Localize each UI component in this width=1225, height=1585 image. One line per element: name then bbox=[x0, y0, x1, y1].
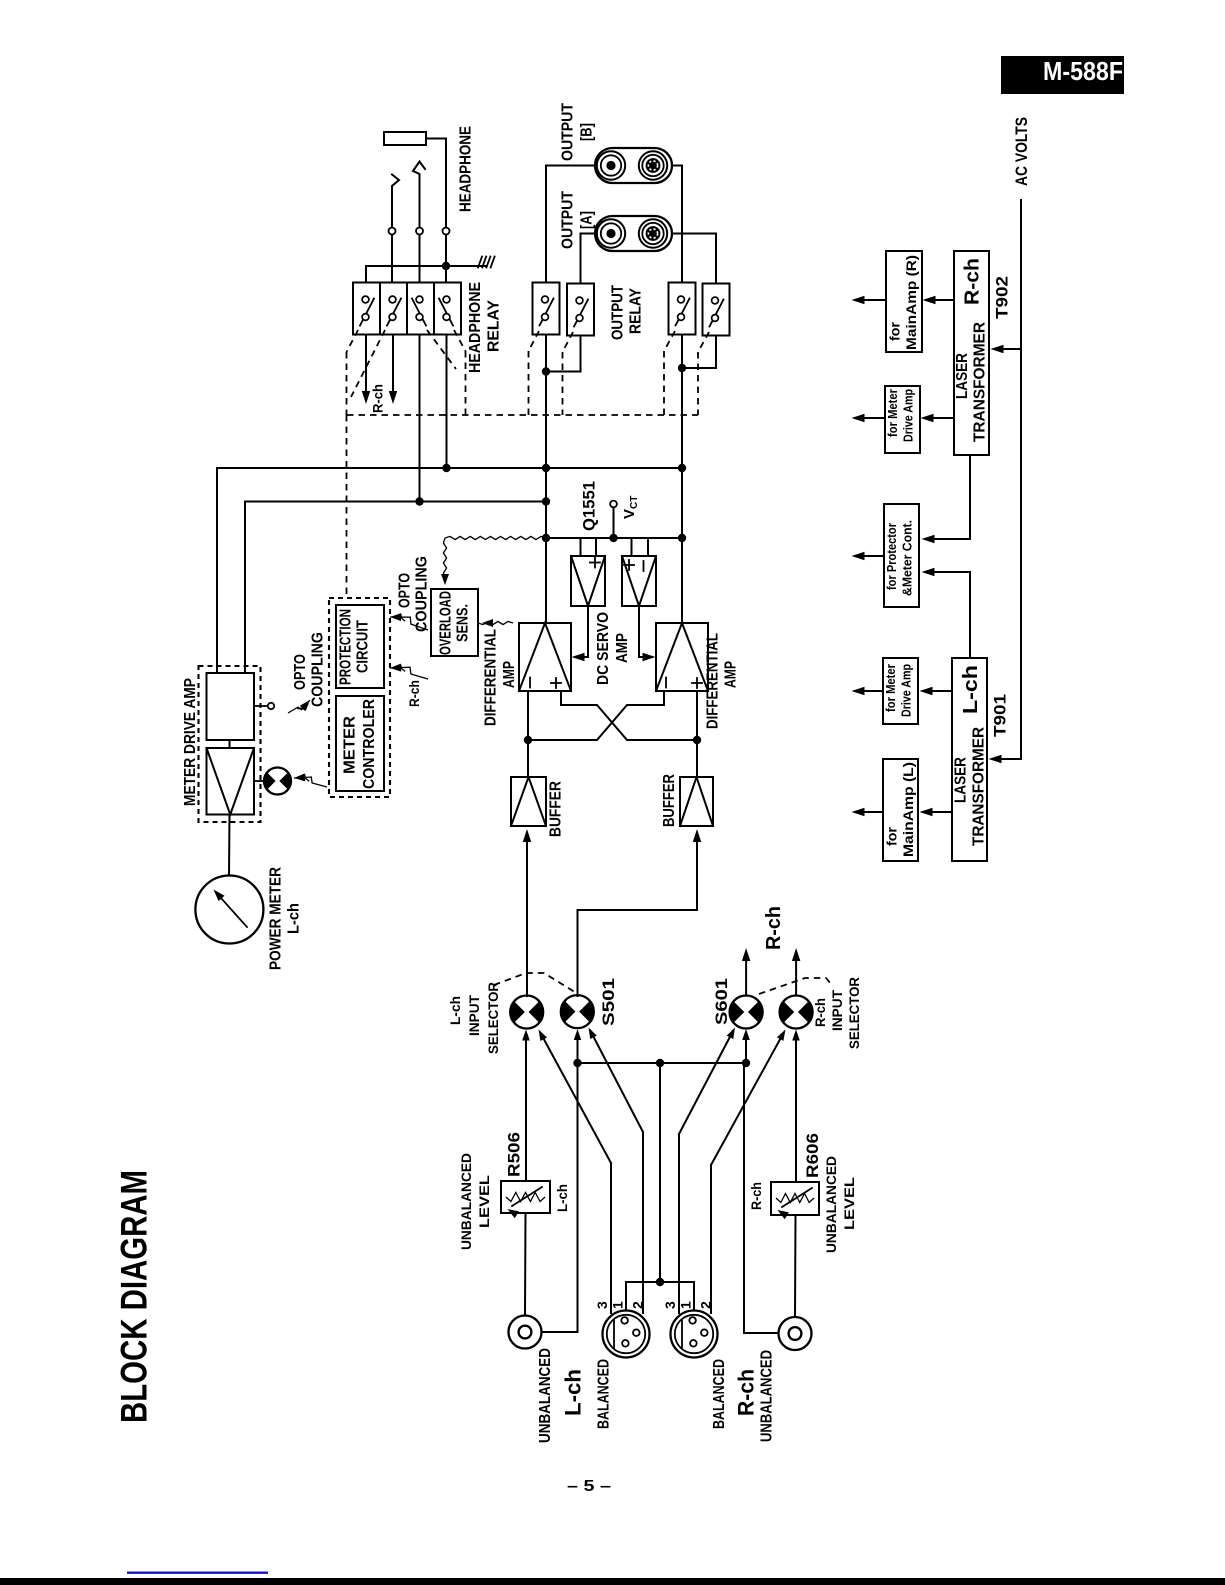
output relay dashed K5 bbox=[529, 331, 540, 351]
headphone relay K1 bbox=[353, 283, 380, 335]
svg-text:R-ch: R-ch bbox=[733, 1369, 758, 1416]
svg-text:BUFFER: BUFFER bbox=[547, 781, 564, 837]
wire T901 to protector bbox=[927, 572, 970, 658]
balanced input rail bbox=[578, 1062, 747, 1064]
R606 resistor zigzag bbox=[776, 1194, 814, 1203]
wire stub servo1 a bbox=[580, 538, 582, 556]
junction on ground rail bbox=[442, 262, 450, 270]
svg-text:M-588F: M-588F bbox=[1043, 56, 1123, 86]
svg-text:S501: S501 bbox=[599, 978, 618, 1026]
svg-text:DIFFERENTIAL: DIFFERENTIAL bbox=[482, 629, 499, 726]
svg-text:SELECTOR: SELECTOR bbox=[485, 982, 501, 1054]
diff amp R plus bbox=[692, 682, 702, 684]
svg-text:OUTPUT: OUTPUT bbox=[559, 103, 576, 161]
wire K1 out arrow R-ch bbox=[365, 335, 367, 399]
relay dashed stem to protection bbox=[346, 415, 348, 598]
junction rail right bbox=[678, 534, 686, 542]
OUTPUT B left RCA bbox=[597, 151, 625, 179]
svg-text:INPUT: INPUT bbox=[829, 990, 845, 1031]
svg-text:for: for bbox=[887, 321, 903, 341]
svg-text:Drive Amp: Drive Amp bbox=[900, 664, 914, 717]
svg-text:L-ch: L-ch bbox=[960, 665, 982, 714]
junction feedback upper mid bbox=[542, 464, 550, 472]
for Protector Meter Cont box bbox=[884, 504, 919, 607]
svg-text:R-ch: R-ch bbox=[763, 906, 785, 950]
output relay K5 bbox=[533, 283, 560, 335]
selector S601 circle 4 bbox=[780, 1000, 797, 1023]
svg-text:2: 2 bbox=[698, 1301, 714, 1309]
jack spring contact sleeve bbox=[413, 162, 425, 228]
wire amp to meter bbox=[228, 815, 231, 876]
svg-text:UNBALANCED: UNBALANCED bbox=[823, 1156, 839, 1253]
junction feedback upper right bbox=[678, 464, 686, 472]
protection circuit box bbox=[336, 605, 384, 688]
svg-text:for Meter: for Meter bbox=[886, 389, 900, 437]
svg-text:LEVEL: LEVEL bbox=[841, 1176, 857, 1230]
wire contact2 to relay K3 bbox=[419, 235, 421, 283]
meter amp terminal bbox=[254, 705, 267, 707]
svg-text:3: 3 bbox=[662, 1301, 678, 1309]
relay dashed link K2 bbox=[351, 330, 385, 397]
svg-text:COUPLING: COUPLING bbox=[413, 556, 430, 632]
output relay K6 bbox=[567, 284, 594, 336]
junction buffer L bbox=[524, 736, 532, 744]
svg-text:MainAmp (R): MainAmp (R) bbox=[903, 255, 919, 350]
wire T902 to protector bbox=[927, 455, 970, 539]
relay dashed link K1 bbox=[347, 330, 359, 352]
svg-text:[A]: [A] bbox=[578, 211, 595, 229]
laser transformer T901 box bbox=[952, 658, 987, 861]
svg-text:METER DRIVE AMP: METER DRIVE AMP bbox=[182, 678, 199, 806]
svg-text:UNBALANCED: UNBALANCED bbox=[758, 1350, 775, 1442]
svg-text:INPUT: INPUT bbox=[466, 995, 482, 1036]
svg-text:CIRCUIT: CIRCUIT bbox=[354, 620, 371, 673]
meter drive amp link bbox=[229, 740, 231, 748]
for Meter Drive Amp R box bbox=[885, 386, 920, 453]
svg-text:METER: METER bbox=[341, 716, 358, 774]
AC volts wire bbox=[994, 200, 1021, 759]
wire R606 to selector4 bbox=[795, 1034, 797, 1182]
svg-text:DIFFERENTIAL: DIFFERENTIAL bbox=[704, 633, 721, 729]
opto coupler disc stub bbox=[254, 780, 264, 782]
jack contact point circle 3 bbox=[443, 228, 450, 235]
selector S501 circle 2 bbox=[561, 1000, 578, 1023]
wire buffer R input bbox=[578, 840, 698, 996]
svg-text:SELECTOR: SELECTOR bbox=[846, 977, 862, 1049]
unbalanced RCA R bbox=[779, 1317, 812, 1350]
ground rail wire bbox=[366, 266, 486, 282]
output relay dashed K8 bbox=[698, 332, 709, 352]
protection dashed box bbox=[329, 598, 390, 797]
wire diff R out cross bbox=[528, 691, 664, 740]
svg-text:– 5 –: – 5 – bbox=[567, 1478, 611, 1495]
wire OUTPUT A left to relay bbox=[581, 234, 596, 284]
junction rail C3 bbox=[742, 1059, 750, 1067]
wire diff L out cross bbox=[561, 691, 697, 740]
headphone relay K4 bbox=[434, 283, 461, 335]
headphone relay K2 bbox=[380, 283, 407, 335]
junction K5 K6 bbox=[542, 367, 550, 375]
svg-text:CONTROLER: CONTROLER bbox=[361, 699, 378, 789]
wire feedback upper bbox=[217, 468, 682, 673]
wire RCA L ground side bbox=[542, 1063, 578, 1332]
arrow T901 to MainAmp L bbox=[925, 811, 952, 813]
svg-text:3: 3 bbox=[594, 1301, 610, 1309]
svg-text:UNBALANCED: UNBALANCED bbox=[458, 1153, 474, 1250]
svg-text:SENS.: SENS. bbox=[454, 604, 471, 642]
svg-text:L-ch: L-ch bbox=[554, 1184, 570, 1212]
junction pin1 bridge bbox=[656, 1278, 664, 1286]
relay dashed link K4 bbox=[454, 330, 466, 351]
svg-text:POWER METER: POWER METER bbox=[267, 867, 284, 970]
wire diff R out straight bbox=[696, 691, 698, 740]
diff amp R minus bbox=[665, 678, 667, 688]
svg-text:BUFFER: BUFFER bbox=[661, 774, 678, 827]
svg-text:[B]: [B] bbox=[578, 123, 595, 141]
svg-text:LASER: LASER bbox=[954, 353, 971, 399]
for Meter Drive Amp L box bbox=[883, 658, 918, 724]
svg-text:BLOCK DIAGRAM: BLOCK DIAGRAM bbox=[113, 1170, 154, 1423]
svg-text:AMP: AMP bbox=[501, 661, 518, 688]
headphone jack J1 body bbox=[384, 132, 426, 145]
junction K3 feed bbox=[415, 497, 423, 505]
buffer amp R bbox=[680, 777, 713, 826]
wire rail to selector3 bbox=[745, 1033, 747, 1063]
svg-text:AMP: AMP bbox=[722, 661, 739, 688]
meter drive amp dashed box bbox=[199, 666, 261, 822]
arrow Protector out bbox=[857, 555, 884, 557]
differential amp R bbox=[656, 623, 708, 691]
svg-text:T902: T902 bbox=[993, 276, 1012, 319]
selector S601 circle 3 bbox=[730, 1000, 747, 1023]
svg-text:HEADPHONE: HEADPHONE bbox=[467, 282, 484, 373]
power meter needle bbox=[216, 893, 247, 928]
wire K2 out arrow R-ch bbox=[392, 335, 394, 399]
svg-text:L-ch: L-ch bbox=[447, 996, 463, 1025]
laser transformer T902 box bbox=[954, 251, 989, 455]
junction rail Vcr bbox=[609, 534, 617, 542]
dc servo amp U1b plus bbox=[624, 564, 634, 566]
svg-text:Drive Amp: Drive Amp bbox=[902, 389, 916, 442]
wire K5 K6 join bbox=[545, 335, 547, 372]
wire to buffer L bbox=[527, 740, 529, 777]
XLR pin1 bridge wire bbox=[626, 1282, 694, 1310]
arrow Meter Drive L out bbox=[857, 690, 883, 692]
chassis ground symbol bbox=[478, 257, 482, 268]
svg-text:MainAmp (L): MainAmp (L) bbox=[900, 762, 916, 857]
OUTPUT B right RCA bbox=[639, 151, 667, 179]
wire RCA L to R506 bbox=[524, 1213, 527, 1316]
selector gang dashed right bbox=[759, 978, 832, 994]
wire RCA R to R606 bbox=[794, 1215, 797, 1317]
opto arrow to protection lower bbox=[390, 667, 428, 679]
relay control dashed bus bbox=[347, 414, 698, 416]
wire left channel vertical bbox=[545, 372, 547, 624]
dc servo amp U1b minus bbox=[643, 561, 645, 571]
XLR connector L bbox=[603, 1311, 650, 1358]
svg-text:L-ch: L-ch bbox=[285, 903, 302, 934]
junction K4 feed bbox=[442, 464, 450, 472]
junction feedback lower right bbox=[542, 497, 550, 505]
svg-text:OUTPUT: OUTPUT bbox=[559, 191, 576, 249]
opto arrow to protection upper bbox=[390, 617, 428, 630]
svg-text:R606: R606 bbox=[803, 1133, 822, 1178]
svg-text:R-ch: R-ch bbox=[406, 680, 422, 707]
svg-text:R-ch: R-ch bbox=[748, 1182, 764, 1210]
opto arrow at disc bbox=[294, 777, 327, 787]
model label M-588F black box bbox=[1001, 56, 1124, 94]
svg-text:HEADPHONE: HEADPHONE bbox=[457, 126, 474, 212]
unbalanced level pot R506 bbox=[501, 1181, 550, 1213]
wire XLR1 pin2 diag to selector2 bbox=[591, 1031, 644, 1132]
jack contact point circle 2 bbox=[416, 228, 423, 235]
svg-text:TRANSFORMER: TRANSFORMER bbox=[970, 727, 987, 846]
wire servo2 out bbox=[639, 606, 651, 657]
wire OUTPUT B right to relay bbox=[672, 166, 682, 283]
arrow Meter Drive R out bbox=[857, 417, 885, 419]
svg-text:OPTO: OPTO bbox=[396, 573, 413, 608]
selector gang dashed left bbox=[494, 973, 578, 994]
svg-text:for: for bbox=[884, 826, 900, 846]
svg-text:BALANCED: BALANCED bbox=[595, 1359, 612, 1429]
svg-text:1: 1 bbox=[678, 1301, 694, 1309]
junction rail center bbox=[656, 1059, 664, 1067]
wire OUTPUT A right to relay bbox=[672, 234, 716, 284]
output relay K8 bbox=[703, 284, 730, 336]
junction K7 K8 bbox=[678, 364, 686, 372]
OUTPUT B jack plate bbox=[595, 148, 672, 183]
relay dashed link K3 bbox=[427, 330, 456, 369]
svg-text:2: 2 bbox=[630, 1301, 646, 1309]
svg-text:OVERLOAD: OVERLOAD bbox=[437, 591, 454, 655]
junction buffer R bbox=[693, 736, 701, 744]
opto coupler disc bbox=[264, 772, 277, 791]
svg-text:R506: R506 bbox=[505, 1132, 524, 1177]
wire XLR1 pin3 diag to selector1 bbox=[541, 1033, 612, 1163]
arrow MainAmp L out bbox=[857, 811, 883, 813]
svg-text:1: 1 bbox=[610, 1301, 626, 1309]
Vcr terminal bbox=[610, 501, 617, 508]
svg-text:AMP: AMP bbox=[614, 633, 631, 663]
wire stub servo2 b bbox=[647, 538, 649, 556]
svg-text:for Protector: for Protector bbox=[885, 523, 899, 590]
overload sens wavy feed bbox=[445, 536, 546, 539]
arrow T902 to MainAmp R bbox=[928, 299, 954, 301]
meter drive amp triangle bbox=[207, 748, 255, 815]
svg-text:TRANSFORMER: TRANSFORMER bbox=[971, 322, 988, 442]
overload sens wavy out bbox=[478, 621, 513, 624]
dc servo amp U1a plus bbox=[590, 562, 600, 564]
for MainAmp R box bbox=[886, 251, 922, 352]
headphone relay K3 bbox=[407, 283, 434, 335]
wire OUTPUT B left to relay bbox=[546, 166, 595, 283]
opto arrow at terminal bbox=[288, 700, 310, 713]
wire feedback lower bbox=[245, 502, 546, 674]
XLR connector R bbox=[671, 1311, 718, 1358]
wire buffer L input bbox=[526, 840, 528, 996]
OUTPUT A jack plate bbox=[595, 216, 672, 251]
svg-text:R-ch: R-ch bbox=[812, 998, 828, 1027]
meter controller box bbox=[336, 696, 384, 791]
output relay K7 bbox=[669, 283, 696, 335]
svg-text:&Meter Cont.: &Meter Cont. bbox=[901, 520, 915, 596]
wire K7 K8 join bbox=[681, 335, 683, 369]
differential amp L bbox=[519, 623, 571, 691]
svg-text:Q1551: Q1551 bbox=[580, 481, 599, 531]
OUTPUT A left RCA bbox=[597, 219, 625, 247]
dc servo amp U1a bbox=[571, 556, 605, 606]
R506 resistor zigzag bbox=[506, 1193, 545, 1202]
wire R506 to selector1 bbox=[525, 1034, 527, 1181]
svg-text:OUTPUT: OUTPUT bbox=[609, 285, 626, 340]
wire RCA R ground side bbox=[744, 1063, 779, 1333]
wire XLR2 pin3 diag to selector3 bbox=[679, 1031, 733, 1134]
footer blue line bbox=[127, 1572, 268, 1574]
for MainAmp L box bbox=[883, 759, 918, 861]
diff amp L plus bbox=[551, 682, 561, 684]
svg-text:R-ch: R-ch bbox=[370, 384, 386, 413]
svg-text:COUPLING: COUPLING bbox=[309, 632, 326, 707]
footer black bar bbox=[0, 1578, 1225, 1585]
svg-text:RELAY: RELAY bbox=[485, 300, 502, 352]
jack spring contact ring bbox=[392, 175, 399, 228]
svg-text:for Meter: for Meter bbox=[884, 664, 898, 712]
jack contact point circle 1 bbox=[389, 228, 396, 235]
svg-text:AC VOLTS: AC VOLTS bbox=[1012, 117, 1031, 186]
svg-text:LASER: LASER bbox=[952, 757, 969, 803]
wire stub servo1 b bbox=[595, 538, 597, 556]
svg-text:LEVEL: LEVEL bbox=[476, 1174, 492, 1228]
wire to buffer R bbox=[696, 740, 698, 777]
power meter M1 bbox=[195, 876, 263, 944]
selector S501 circle 1 bbox=[510, 1000, 527, 1023]
output relay dashed K6 bbox=[563, 332, 574, 352]
wire stub servo2 a bbox=[631, 538, 633, 556]
svg-text:OPTO: OPTO bbox=[292, 654, 309, 690]
wire contact3 to relay K4 bbox=[445, 235, 447, 283]
wire selector1 up to buffer bbox=[526, 995, 528, 998]
wire K3 to meter feed bbox=[419, 335, 421, 502]
svg-text:DC SERVO: DC SERVO bbox=[595, 612, 612, 685]
dc servo amp U1b bbox=[622, 556, 656, 606]
junction rail C2 bbox=[573, 1059, 581, 1067]
wire contact1 to relay K2 bbox=[391, 235, 393, 283]
arrow T901 to Meter Drive L bbox=[925, 690, 952, 692]
arrow T902 to Meter Drive R bbox=[926, 417, 954, 419]
svg-text:S601: S601 bbox=[712, 978, 731, 1025]
wire jack tip to relay bbox=[426, 139, 446, 228]
arrow MainAmp R out bbox=[857, 299, 886, 301]
AC volts branch to T902 bbox=[996, 348, 1021, 350]
svg-text:BALANCED: BALANCED bbox=[711, 1359, 728, 1429]
overload sens box bbox=[431, 589, 478, 656]
svg-text:RELAY: RELAY bbox=[627, 288, 644, 334]
output relay dashed K7 bbox=[664, 331, 675, 351]
OUTPUT A right RCA bbox=[639, 219, 667, 247]
buffer amp L bbox=[511, 777, 546, 826]
svg-text:T901: T901 bbox=[991, 694, 1010, 737]
meter drive amp control rect bbox=[207, 673, 255, 740]
selector R-ch out arrows bbox=[745, 961, 747, 996]
Vcr rail wire bbox=[546, 537, 682, 539]
svg-text:L-ch: L-ch bbox=[560, 1369, 585, 1416]
diff amp L minus bbox=[529, 678, 531, 688]
svg-text:UNBALANCED: UNBALANCED bbox=[537, 1348, 554, 1443]
svg-text:PROTECTION: PROTECTION bbox=[337, 609, 354, 685]
wire right channel vertical bbox=[681, 368, 683, 623]
wire XLR2 pin2 diag to selector4 bbox=[711, 1033, 784, 1165]
junction rail left bbox=[542, 534, 550, 542]
svg-text:R-ch: R-ch bbox=[962, 258, 984, 305]
wire diff L out straight bbox=[527, 691, 529, 740]
unbalanced level pot R606 bbox=[771, 1182, 819, 1215]
wire K4 to meter feed bbox=[446, 335, 448, 469]
wire servo1 out bbox=[576, 606, 588, 657]
unbalanced RCA L bbox=[509, 1316, 542, 1349]
wire rail to selector2 bbox=[577, 1033, 579, 1063]
